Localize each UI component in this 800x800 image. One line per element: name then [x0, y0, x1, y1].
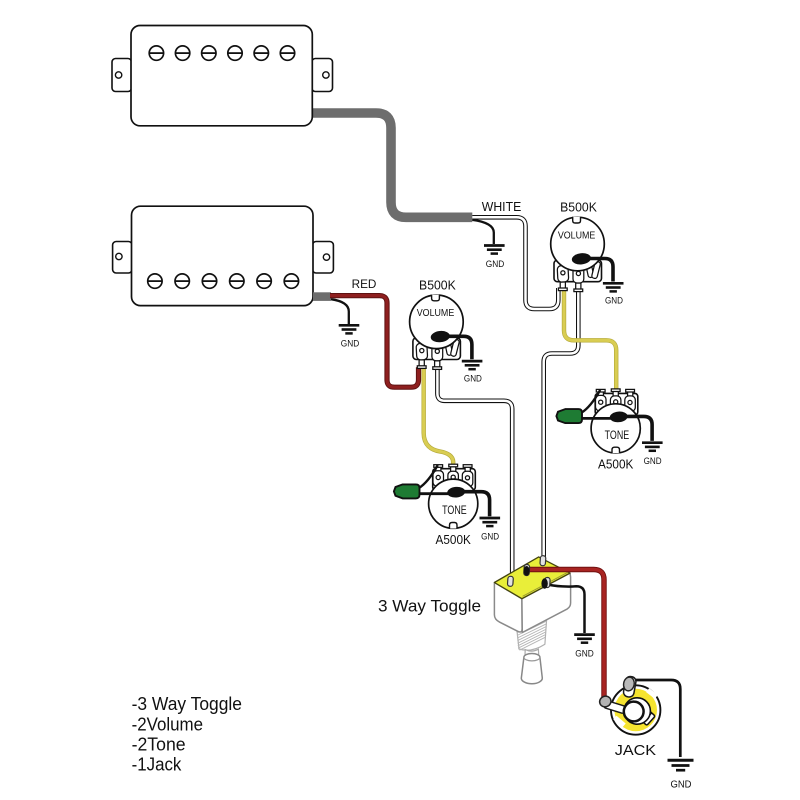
- wire: white VOL1 wiper to toggle: [544, 289, 579, 560]
- ground: jack: [668, 760, 694, 770]
- jack J1: [598, 676, 660, 735]
- svg-text:GND: GND: [575, 649, 594, 659]
- toggle tip: [521, 654, 542, 684]
- wire: P2 ground lead to GND: [331, 299, 349, 324]
- toggle neck: [525, 649, 539, 657]
- svg-text:GND: GND: [341, 338, 360, 348]
- svg-text:-2Volume: -2Volume: [132, 713, 203, 734]
- wire: jack ground to GND: [634, 680, 680, 757]
- wire: shield ground at WHITE junction: [472, 220, 494, 244]
- wire: black toggle ground: [545, 584, 584, 633]
- ground: WHITE junction: [484, 246, 505, 254]
- toggle bushing (threaded): [517, 616, 547, 651]
- wire: white core from P1 to volume pot VOL1 input lug: [472, 217, 558, 309]
- ground: toggle: [574, 635, 595, 643]
- potentiometer TONE1 (A500K tone, left) with capacitor C1: [394, 464, 500, 547]
- svg-text:WHITE: WHITE: [482, 200, 522, 214]
- jack body: [611, 685, 660, 734]
- switch SW1: 3-way toggle: [494, 557, 570, 684]
- svg-text:3 Way Toggle: 3 Way Toggle: [378, 598, 481, 616]
- pickup P2 (neck humbucker): [113, 206, 334, 305]
- ground lug arm: [623, 676, 637, 698]
- potentiometer TONE2 (A500K tone, right) with capacitor C2: [556, 389, 662, 472]
- legend text: [132, 693, 242, 775]
- toggle pins: [507, 556, 550, 589]
- wire: white VOL2 wiper to toggle: [437, 368, 512, 579]
- jack sleeve cylinder: [635, 706, 655, 726]
- svg-text:JACK: JACK: [615, 743, 657, 759]
- svg-text:-1Jack: -1Jack: [132, 754, 182, 775]
- svg-text:GND: GND: [486, 259, 505, 269]
- potentiometer VOL2 (B500K volume, neck): [410, 277, 483, 383]
- ground lug: [622, 676, 635, 691]
- svg-text:-2Tone: -2Tone: [132, 734, 186, 755]
- svg-text:-3 Way Toggle: -3 Way Toggle: [132, 693, 242, 714]
- ground: P2: [339, 325, 360, 333]
- pickup P1 (bridge humbucker): [112, 26, 333, 126]
- potentiometer VOL1 (B500K volume, bridge): [551, 200, 624, 306]
- wire: red hot toggle output to jack: [527, 570, 604, 698]
- svg-text:GND: GND: [671, 780, 692, 791]
- P2 cable sheath stub: [313, 292, 331, 301]
- svg-text:RED: RED: [352, 277, 377, 291]
- wire: gray shielded cable from bridge pickup: [312, 113, 472, 217]
- wire: RED hot lead from P2 to volume pot VOL2: [330, 296, 419, 388]
- wire: yellow lead VOL2 input lug to TONE1: [424, 367, 454, 467]
- wire: yellow lead VOL1 input lug to TONE2: [564, 289, 616, 392]
- red wire terminal: [598, 695, 612, 709]
- hot lug arm: [603, 700, 626, 714]
